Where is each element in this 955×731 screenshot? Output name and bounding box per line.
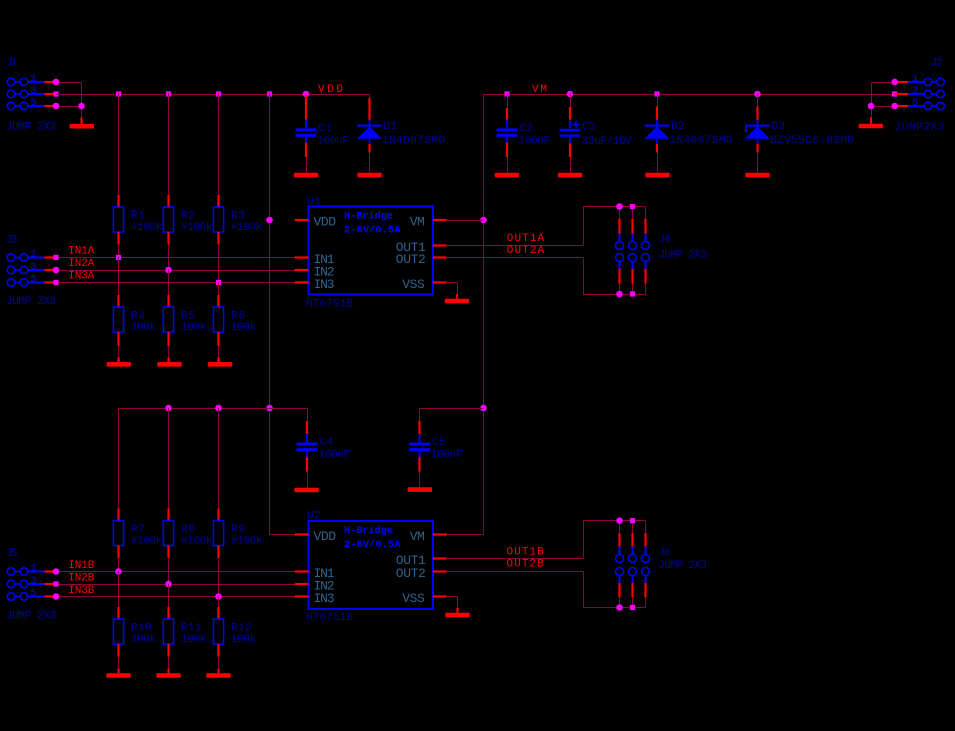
wire R11 top [168, 584, 170, 619]
wire U1 VM to VM drop [446, 220, 484, 222]
D2 bottom pin [656, 144, 658, 153]
svg-text:100k: 100k [131, 634, 157, 646]
connector J3 [6, 234, 56, 308]
svg-text:IN3B: IN3B [68, 585, 94, 597]
svg-text:H-Bridge: H-Bridge [344, 211, 393, 223]
svg-text:VM: VM [410, 215, 425, 230]
wire R1 to IN1A [118, 245, 120, 258]
wire VM rail [484, 94, 895, 96]
R3 bottom pin [217, 232, 219, 245]
svg-text:1: 1 [30, 250, 36, 261]
connector J4 [616, 219, 708, 284]
ground at R12 [206, 657, 230, 678]
ground at J2 [859, 106, 883, 128]
svg-text:HT6751B: HT6751B [306, 299, 353, 311]
wire IN1A [56, 257, 297, 259]
svg-text:#100k: #100k [131, 222, 163, 234]
svg-text:R1: R1 [131, 211, 145, 223]
junctions at J1 [53, 79, 85, 110]
junction VDD at U1 [266, 217, 273, 224]
J2 to ground wires [871, 82, 895, 107]
svg-text:BZV55C6.8SMD: BZV55C6.8SMD [770, 135, 854, 147]
R7 bottom pin [117, 546, 119, 559]
svg-text:C5: C5 [432, 437, 446, 449]
svg-text:IN1B: IN1B [68, 560, 94, 572]
wire C5 top [419, 408, 421, 434]
wire VM drop to U1 U2 [447, 94, 484, 535]
U1 pin stubs [295, 220, 447, 283]
C3 bottom pin [569, 143, 571, 157]
svg-text:JUMP2X3: JUMP2X3 [895, 122, 945, 134]
svg-text:C3: C3 [582, 121, 596, 133]
wire VDD drop to U1 and lower rail [270, 94, 297, 535]
svg-text:VSS: VSS [402, 277, 425, 292]
svg-text:R7: R7 [131, 524, 145, 536]
svg-text:2-6V/0.5A: 2-6V/0.5A [344, 539, 401, 551]
ground at C5 [408, 472, 432, 492]
svg-text:1: 1 [912, 74, 918, 85]
R8 top pin [167, 509, 169, 521]
wire R9 to IN3B [218, 558, 220, 597]
svg-text:#100k: #100k [181, 535, 213, 547]
svg-text:IN2B: IN2B [68, 573, 94, 585]
svg-text:IN3: IN3 [314, 277, 335, 292]
svg-text:JUMP 2X3: JUMP 2X3 [659, 249, 708, 261]
ground at J1 [70, 106, 94, 129]
J4 loop wires [583, 207, 646, 295]
wire D1 top [369, 94, 371, 120]
wire D2 top [656, 94, 659, 120]
resistor R11 [163, 619, 206, 646]
resistor R10 [113, 619, 156, 646]
svg-text:100k: 100k [131, 322, 157, 334]
wire C3 top [569, 94, 572, 120]
svg-text:R9: R9 [231, 524, 245, 536]
ground at U2 VSS [445, 613, 469, 618]
connector J6 [616, 533, 708, 597]
diode D3 [745, 120, 854, 148]
svg-text:U1: U1 [307, 197, 321, 209]
R1 top pin [117, 195, 119, 207]
svg-text:HT6751B: HT6751B [306, 612, 353, 624]
svg-text:#100k: #100k [131, 535, 163, 547]
J4 junctions [616, 203, 635, 297]
connector J2 [895, 58, 945, 135]
svg-text:OUT2: OUT2 [396, 566, 426, 581]
wire R3 to IN3A [218, 245, 220, 283]
junction VM at lower rail [480, 405, 487, 412]
ground at R11 [156, 657, 180, 678]
svg-text:J4: J4 [659, 234, 671, 246]
svg-text:J3: J3 [6, 234, 18, 246]
svg-text:OUT1A: OUT1A [507, 233, 545, 245]
capacitor C2 [497, 120, 550, 148]
wire U2 VSS to ground [446, 597, 458, 613]
resistor R1 [113, 207, 162, 234]
svg-text:100k: 100k [231, 322, 257, 334]
svg-text:R4: R4 [131, 311, 145, 323]
resistor R5 [163, 307, 206, 334]
svg-text:R5: R5 [181, 311, 195, 323]
R4 bottom pin [117, 332, 119, 346]
wire lower rail to R8 [168, 408, 170, 509]
wire OUT1B riser [583, 521, 585, 559]
svg-text:3: 3 [912, 86, 918, 97]
svg-text:IN3A: IN3A [68, 270, 94, 282]
svg-text:C4: C4 [320, 437, 334, 449]
svg-text:R10: R10 [131, 623, 152, 635]
svg-text:JUMP 2X3: JUMP 2X3 [6, 296, 56, 308]
wire lower VM rail segment [420, 408, 484, 410]
svg-text:R8: R8 [181, 524, 195, 536]
svg-text:5: 5 [30, 589, 36, 600]
junction VM at U1 [480, 217, 487, 224]
svg-text:OUT2: OUT2 [396, 252, 426, 267]
svg-text:100nF: 100nF [431, 450, 463, 462]
svg-text:VM: VM [410, 529, 425, 544]
svg-text:3: 3 [30, 262, 36, 273]
R12 bottom pin [217, 644, 219, 657]
junctions input nets B [115, 568, 222, 600]
wire IN3A [56, 282, 297, 284]
wire OUT1B [446, 558, 584, 560]
J1 to ground wires [56, 82, 82, 107]
wire OUT1A [446, 245, 584, 247]
wire lower rail to R7 [118, 408, 120, 509]
wire lower rail to R9 [218, 408, 220, 509]
H-bridge IC U1 [306, 197, 433, 311]
R5 bottom pin [167, 332, 169, 346]
svg-text:OUT2A: OUT2A [507, 245, 545, 257]
svg-text:JUMP 2X3: JUMP 2X3 [6, 611, 56, 623]
svg-text:VDD: VDD [314, 529, 337, 544]
R1 bottom pin [117, 232, 119, 245]
resistor R8 [163, 521, 212, 548]
R7 top pin [117, 509, 119, 521]
wire VDD rail to R3 [218, 94, 220, 195]
wire OUT2A [446, 257, 584, 259]
junctions at J5 [53, 568, 60, 600]
J6 loop wires [583, 521, 646, 608]
R9 bottom pin [217, 546, 219, 559]
wire R2 to IN2A [168, 245, 170, 271]
wire lower VDD rail [119, 408, 308, 410]
svg-text:J6: J6 [659, 547, 671, 559]
resistor R7 [113, 521, 162, 548]
svg-text:100k: 100k [231, 634, 257, 646]
svg-text:100k: 100k [181, 322, 207, 334]
R11 bottom pin [167, 644, 169, 657]
R6 bottom pin [217, 332, 219, 346]
ground at U1 VSS [445, 299, 469, 304]
svg-text:C2: C2 [520, 123, 534, 135]
svg-text:VDD: VDD [314, 215, 337, 230]
junctions input nets A [116, 255, 221, 285]
wire C4 top [306, 408, 309, 434]
diode D2 [645, 120, 733, 148]
svg-text:VDD: VDD [318, 84, 343, 96]
J6 junctions [616, 517, 635, 610]
svg-text:100nF: 100nF [319, 450, 351, 462]
svg-text:1: 1 [30, 564, 36, 575]
wire VDD rail to R2 [168, 94, 170, 195]
D3 bottom pin [756, 144, 758, 153]
svg-text:J2: J2 [931, 58, 943, 70]
connector J1 [6, 58, 56, 134]
svg-text:JUMP 2X3: JUMP 2X3 [659, 560, 708, 572]
capacitor C3 [560, 120, 633, 148]
ground at D1 [357, 153, 381, 178]
svg-text:J1: J1 [6, 58, 18, 70]
svg-text:J5: J5 [6, 548, 18, 560]
svg-text:R6: R6 [231, 311, 245, 323]
svg-text:U2: U2 [307, 511, 321, 523]
wire R6 top [218, 283, 220, 308]
ground at C4 [294, 472, 318, 493]
wire R10 top [118, 572, 120, 620]
wire D3 top [757, 94, 759, 120]
R3 top pin [217, 195, 219, 207]
C2 bottom pin [506, 143, 508, 157]
svg-text:R2: R2 [181, 211, 195, 223]
capacitor C1 [296, 120, 349, 148]
svg-text:5: 5 [30, 98, 36, 109]
ground at D3 [745, 153, 769, 178]
svg-text:VM: VM [532, 84, 547, 96]
junctions at J3 [53, 255, 60, 285]
wire IN3B [56, 596, 297, 598]
svg-text:33uF/10V: 33uF/10V [582, 136, 633, 148]
svg-text:VSS: VSS [402, 591, 425, 606]
svg-text:D1: D1 [384, 121, 398, 133]
ground at D2 [645, 153, 669, 178]
wire R12 top [218, 597, 220, 620]
wire C2 top [506, 94, 509, 120]
svg-text:#100k: #100k [231, 535, 263, 547]
ground at C1 [294, 157, 318, 177]
svg-text:C1: C1 [319, 123, 333, 135]
svg-text:100k: 100k [181, 634, 207, 646]
svg-text:IN1A: IN1A [68, 246, 94, 258]
svg-text:5: 5 [912, 98, 918, 109]
svg-text:R3: R3 [231, 211, 245, 223]
svg-text:D3: D3 [772, 121, 786, 133]
svg-text:1: 1 [30, 74, 36, 85]
wire VDD rail to R1 [118, 94, 120, 195]
R10 bottom pin [117, 644, 119, 657]
C4 bottom pin [306, 457, 308, 471]
capacitor C4 [297, 434, 350, 462]
R2 bottom pin [167, 232, 169, 245]
ground at C2 [495, 157, 519, 177]
svg-text:100nF: 100nF [318, 135, 350, 147]
wire U1 VSS to ground [446, 283, 458, 299]
svg-text:OUT2B: OUT2B [507, 558, 545, 570]
diode D1 [357, 120, 445, 148]
wire IN2B [56, 584, 297, 586]
wire OUT2A dropper [583, 258, 585, 295]
resistor R2 [163, 207, 212, 234]
svg-text:JUMP 2X3: JUMP 2X3 [6, 122, 56, 134]
svg-text:5: 5 [30, 275, 36, 286]
wire IN2A [56, 270, 297, 272]
svg-text:R11: R11 [181, 623, 202, 635]
svg-text:#100k: #100k [231, 222, 263, 234]
ground at R5 [157, 346, 181, 367]
wire OUT2B [446, 571, 584, 573]
svg-text:100nF: 100nF [519, 135, 551, 147]
svg-text:D2: D2 [671, 121, 685, 133]
R9 top pin [217, 509, 219, 521]
resistor R6 [213, 307, 256, 334]
capacitor C5 [409, 434, 462, 462]
R8 bottom pin [167, 546, 169, 559]
junctions on VDD rail [116, 91, 309, 98]
ground at R6 [208, 346, 232, 367]
C1 bottom pin [305, 143, 307, 157]
svg-text:OUT1B: OUT1B [507, 546, 545, 558]
wire R4 top [118, 258, 120, 308]
resistor R9 [213, 521, 262, 548]
wire R8 to IN2B [168, 558, 170, 584]
ground at R10 [106, 657, 130, 678]
svg-text:#100k: #100k [181, 222, 213, 234]
C5 bottom pin [418, 457, 420, 471]
resistor R12 [213, 619, 256, 646]
junction VDD at lower rail [266, 405, 273, 412]
svg-text:IN2A: IN2A [68, 258, 94, 270]
resistor R3 [213, 207, 262, 234]
junctions at J2 [868, 79, 898, 110]
junctions on VM rail [504, 91, 897, 98]
junctions lower VDD rail [165, 405, 222, 412]
D1 bottom pin [368, 144, 370, 153]
svg-text:1N4007SMD: 1N4007SMD [670, 135, 733, 147]
svg-text:2-6V/0.5A: 2-6V/0.5A [344, 224, 401, 236]
wire R7 to IN1B [118, 558, 120, 572]
svg-text:H-Bridge: H-Bridge [344, 525, 393, 537]
wire OUT2B dropper [583, 572, 585, 608]
wire R5 top [168, 270, 170, 307]
connector J5 [6, 548, 56, 622]
wire IN1B [56, 571, 297, 573]
wire C1 top [305, 95, 307, 110]
svg-text:R12: R12 [231, 623, 252, 635]
ground at R4 [107, 346, 131, 367]
ground at C3 [558, 157, 582, 177]
wire VDD rail [56, 94, 370, 96]
svg-text:3: 3 [30, 576, 36, 587]
R2 top pin [167, 195, 169, 207]
svg-text:3: 3 [30, 86, 36, 97]
wire OUT1A riser [583, 207, 585, 246]
resistor R4 [113, 307, 156, 334]
U2 pin stubs [295, 535, 447, 597]
svg-text:1N4007SMD: 1N4007SMD [382, 135, 445, 147]
H-bridge IC U2 [306, 511, 433, 624]
svg-text:IN3: IN3 [314, 591, 335, 606]
